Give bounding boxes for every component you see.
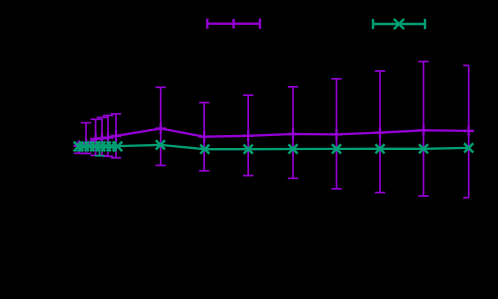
series2 point marker 15: [419, 144, 428, 153]
series2 errorbar 1: [74, 143, 84, 151]
purple error bars: [74, 62, 469, 198]
series1 errorbar 4: [97, 117, 107, 155]
series2 point marker 14: [375, 144, 384, 153]
series1 errorbar 13: [418, 62, 428, 197]
green series line: [79, 145, 469, 149]
series2 point marker 6: [101, 142, 111, 152]
series1 point marker 3: [90, 134, 101, 145]
series1 errorbar 8: [199, 103, 209, 171]
series2 errorbar 2: [95, 141, 105, 156]
series2 point marker 9: [156, 140, 165, 149]
series2 point marker 7: [107, 142, 117, 152]
series1 errorbar 10: [288, 87, 298, 179]
series1 errorbar 3: [90, 119, 100, 155]
series2 point marker 4: [90, 142, 100, 152]
series2 point marker 10: [200, 145, 209, 154]
series1 errorbar 11: [331, 79, 341, 189]
series2 point marker 5: [96, 142, 106, 152]
series1 errorbar 9: [243, 95, 253, 175]
purple series line: [79, 129, 469, 146]
series1 point marker 7: [155, 123, 166, 134]
series1 errorbar 1: [74, 143, 84, 153]
series2 point marker 3: [85, 142, 95, 152]
green error bars: [74, 141, 104, 156]
series1 point marker 9: [243, 130, 254, 141]
series1 point marker 14: [463, 126, 474, 137]
series1 errorbar 2: [81, 123, 91, 154]
series1 point marker 4: [97, 133, 108, 144]
series1 point marker 11: [331, 129, 342, 140]
series2 point marker 13: [332, 144, 341, 153]
series2 point marker 1: [74, 142, 84, 152]
series1 point marker 8: [199, 131, 210, 142]
green x markers: [74, 140, 474, 154]
series1 point marker 13: [418, 125, 429, 136]
series1 point marker 5: [103, 132, 114, 143]
series1 errorbar 12: [375, 71, 385, 193]
series1 point marker 12: [375, 127, 386, 138]
series2 point marker 2: [79, 142, 89, 152]
legend sample series2 (green errorbar sample): [373, 19, 425, 29]
series1 point marker 6: [111, 131, 122, 142]
purple + markers: [74, 123, 475, 151]
series1 errorbar 6: [111, 114, 121, 158]
legend sample series1 (purple errorbar sample): [207, 19, 260, 29]
series1 point marker 2: [81, 139, 92, 150]
series1 point marker 10: [288, 129, 299, 140]
series2 point marker 12: [288, 144, 297, 153]
series1 point marker 1: [74, 140, 85, 151]
series2 point marker 11: [244, 145, 253, 154]
series1 errorbar 5: [103, 116, 113, 157]
series2 point marker 16: [464, 143, 473, 152]
series2 point marker 8: [113, 142, 123, 152]
series1 errorbar 7: [156, 87, 166, 165]
series1 errorbar 14: [463, 65, 469, 197]
